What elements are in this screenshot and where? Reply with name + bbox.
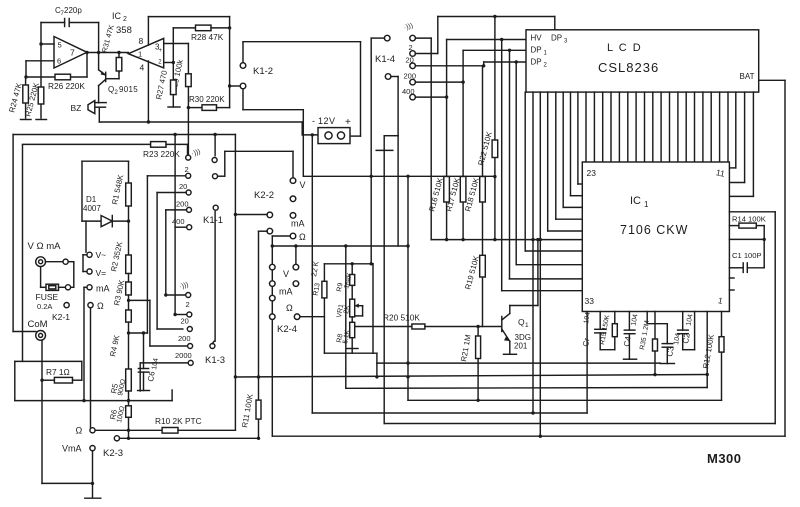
- svg-text:mA: mA: [291, 219, 305, 229]
- svg-text:6: 6: [57, 57, 61, 66]
- wire K2-2 wiper1: [235, 214, 267, 216]
- wire VmA terminal to ground: [92, 451, 94, 498]
- wire buzzer-range contact to IN bus: [415, 37, 431, 39]
- resistor R3 90K: [128, 274, 130, 283]
- resistor R6 100ohm: [126, 406, 132, 418]
- svg-text:IC: IC: [112, 11, 122, 21]
- wire bus y436 outermost: [272, 435, 785, 437]
- svg-text:7: 7: [70, 48, 75, 58]
- svg-text:2: 2: [123, 16, 127, 23]
- wire BAT to right border: [759, 79, 785, 81]
- switch K1-2: [240, 63, 246, 69]
- wire shunt rail y400: [15, 400, 172, 402]
- wire IC1 pin to R14 right node: [729, 238, 764, 240]
- wire K1-4 wiper2 to ground: [391, 76, 398, 78]
- resistor R21 1M: [477, 327, 479, 401]
- wire IC1 pin1 down: [706, 312, 708, 388]
- svg-text:V: V: [300, 180, 306, 190]
- svg-text:K2-3: K2-3: [103, 448, 123, 459]
- svg-text:FUSE: FUSE: [36, 292, 59, 302]
- svg-text:Ω: Ω: [299, 232, 306, 242]
- svg-text:R7 1Ω: R7 1Ω: [46, 367, 70, 377]
- wire R29 to K1-1 buzzer contact: [187, 108, 189, 155]
- svg-text:K1-4: K1-4: [375, 54, 395, 65]
- svg-text:Q: Q: [108, 85, 114, 94]
- svg-text:V~: V~: [96, 250, 107, 260]
- switch K1-1 right contacts: [212, 158, 217, 163]
- resistor R22 510K: [494, 17, 496, 240]
- svg-text:2: 2: [186, 300, 190, 309]
- wire K2-2 wiper2: [259, 230, 268, 232]
- wire negative rail under buzzer: [99, 121, 302, 123]
- op-amp U2A (IC2 pins 5,6,7): [54, 37, 87, 69]
- svg-text:CoM: CoM: [28, 319, 48, 330]
- svg-text:R10 2K PTC: R10 2K PTC: [155, 416, 202, 426]
- svg-text:220p: 220p: [64, 6, 82, 15]
- capacitor C6 104: [143, 333, 145, 369]
- wire IN bus to IC1: [431, 239, 582, 241]
- svg-text:1: 1: [525, 322, 529, 329]
- resistor R19 510K: [480, 255, 486, 277]
- wire K1-1 range rails: [147, 175, 185, 177]
- svg-text:8: 8: [139, 36, 144, 46]
- fuse 0.2A: [40, 267, 42, 288]
- svg-text:Ω: Ω: [76, 426, 83, 436]
- svg-text:+: +: [345, 117, 351, 128]
- wire LCD pin to IC1 left pin lowest: [524, 92, 526, 251]
- svg-text:400: 400: [172, 217, 185, 226]
- capacitor Cr 104: [599, 312, 601, 330]
- resistor R2 352K: [128, 221, 130, 255]
- wire K2-3 wiper rail: [120, 437, 258, 439]
- wire COM down: [41, 340, 43, 483]
- svg-text:mA: mA: [279, 287, 293, 297]
- capacitor C2 104: [682, 312, 684, 331]
- svg-text:Q: Q: [518, 317, 525, 327]
- svg-text:23: 23: [587, 168, 597, 178]
- svg-text:+: +: [159, 48, 163, 54]
- wire LCD left pins HV DP1 DP2: [501, 40, 503, 291]
- wire K1-2 lower contact: [242, 89, 244, 110]
- svg-text:9015: 9015: [119, 85, 138, 94]
- svg-text:BAT: BAT: [740, 72, 755, 81]
- wire top supply to R28 node: [148, 16, 229, 18]
- wire ground node down to K2-4 net: [397, 136, 399, 246]
- svg-text:DP: DP: [531, 46, 542, 55]
- svg-text:V Ω mA: V Ω mA: [28, 241, 62, 252]
- svg-text:mA: mA: [96, 284, 110, 294]
- resistor R28 47K: [173, 27, 195, 29]
- svg-text:4007: 4007: [83, 204, 101, 213]
- svg-text:K2-4: K2-4: [277, 324, 297, 335]
- divider box R13/R9/VR1/R8: [323, 264, 325, 353]
- svg-text:5: 5: [58, 41, 62, 50]
- transistor Q2 9015: [105, 72, 107, 81]
- switch K2-1 fixed contacts: [87, 252, 92, 257]
- wire ohm contact down to K2-3: [90, 308, 92, 428]
- wire K2-2 ohm contact down to outer bus: [272, 235, 290, 237]
- svg-text:R30 220K: R30 220K: [189, 95, 225, 104]
- resistor R12 100K: [721, 312, 723, 401]
- svg-text:Ω: Ω: [97, 301, 104, 311]
- svg-text:12V: 12V: [318, 116, 336, 126]
- wire K1-3 wiper: [212, 341, 214, 343]
- wire R28/R30 right node: [229, 17, 231, 108]
- resistor R15 150K: [614, 312, 616, 324]
- svg-text:VmA: VmA: [62, 444, 82, 454]
- ground symbol near battery: [384, 135, 398, 137]
- wire inner border: [22, 145, 24, 361]
- wire pin3 input to R29: [164, 43, 189, 45]
- svg-text:200: 200: [178, 334, 191, 343]
- capacitor C4 104: [628, 312, 630, 331]
- svg-text:33: 33: [585, 296, 595, 306]
- resistor R26 220K feedback: [26, 76, 87, 78]
- svg-text:2: 2: [185, 165, 189, 174]
- resistor R30 220K: [188, 107, 202, 109]
- wire K2-4 ohm contact: [300, 316, 325, 318]
- IC chip IC1 7106 CKW: [582, 162, 729, 312]
- wire mA contact down: [84, 286, 87, 288]
- svg-text:K2-2: K2-2: [254, 190, 274, 201]
- svg-text:DP: DP: [531, 58, 542, 67]
- op-amp U2B (IC2 pins 8,3,2,4,1): [128, 38, 163, 68]
- resistor R5 900ohm: [126, 369, 132, 391]
- resistor R24 47K: [25, 77, 27, 118]
- wire battery minus: [311, 135, 313, 413]
- svg-text:R14 100K: R14 100K: [732, 215, 766, 224]
- capacitor C7 220p: [41, 22, 65, 24]
- svg-text:V: V: [283, 269, 289, 279]
- svg-text:K1-2: K1-2: [253, 66, 273, 77]
- wire range select rail y176: [303, 175, 495, 177]
- wire LCD pin bus wrap-left lines: [577, 92, 579, 184]
- buzzer BZ: [88, 101, 95, 114]
- wire pin5 input: [40, 23, 42, 45]
- diode D1 4007: [82, 220, 101, 222]
- svg-text:1: 1: [644, 200, 649, 209]
- wire outer border: [13, 134, 235, 136]
- resistor R16 510K: [446, 97, 448, 240]
- resistor R35 1.2M: [654, 312, 656, 376]
- wire 2V contact to top line: [415, 53, 437, 55]
- wire terminal to K2-1: [46, 261, 63, 263]
- sub-box top wire: [82, 160, 129, 162]
- svg-text:20: 20: [179, 182, 187, 191]
- svg-text:DP: DP: [551, 34, 562, 43]
- wire chain tap to 2V rail and C6: [129, 332, 148, 334]
- switch K1-4 wipers: [384, 35, 390, 41]
- transistor Q1 3DG201: [501, 317, 503, 332]
- wire V/mA bus K1-1 wiper3 path: [272, 245, 408, 247]
- resistor R8 5.1K: [350, 322, 355, 337]
- wire 400V contact: [415, 96, 446, 98]
- resistor R25 220K: [40, 44, 42, 118]
- wire LCD pin wrap-right lines: [735, 92, 737, 168]
- resistor R18 510K: [482, 66, 484, 327]
- svg-text:-: -: [312, 116, 315, 126]
- ground symbol bottom-left: [85, 497, 101, 499]
- capacitor C3 104: [646, 312, 648, 324]
- resistor R9 168K: [351, 264, 353, 275]
- svg-text:K2-1: K2-1: [52, 312, 70, 322]
- svg-text:V=: V=: [96, 268, 107, 278]
- svg-text:Ω: Ω: [286, 303, 293, 313]
- wire pin2 node: [164, 62, 174, 64]
- resistor R27 470: [171, 80, 177, 95]
- svg-text:D1: D1: [86, 195, 97, 204]
- wire bus y400: [408, 399, 722, 401]
- wire K1-4 wiper left rail: [371, 37, 384, 39]
- wire bus y376: [235, 375, 707, 378]
- svg-text:4: 4: [140, 63, 145, 73]
- wire LCD top stub: [554, 17, 556, 30]
- svg-text:R26 220K: R26 220K: [48, 81, 85, 91]
- svg-text:R28 47K: R28 47K: [191, 32, 224, 42]
- svg-text:C1 100P: C1 100P: [732, 251, 762, 260]
- svg-text:IC: IC: [630, 195, 641, 207]
- wire K2-4 V contact up to bus: [295, 246, 297, 264]
- svg-text:2000: 2000: [175, 351, 192, 360]
- wire pin4 V-: [147, 61, 149, 122]
- wire 20V contact: [415, 65, 483, 67]
- switch K2-1 wiper3: [64, 303, 69, 308]
- svg-text:201: 201: [514, 342, 528, 351]
- wire bus y413: [312, 412, 587, 414]
- potentiometer VR1 2K: [350, 299, 355, 317]
- svg-text:CSL8236: CSL8236: [598, 60, 659, 75]
- resistor R13 22K: [322, 281, 327, 298]
- resistor R23 220K: [23, 143, 151, 145]
- wire IC1 pin to outer right rail: [729, 211, 775, 213]
- svg-text:20: 20: [406, 56, 414, 65]
- wire pin8 V+: [147, 17, 149, 46]
- svg-text:K1-3: K1-3: [205, 355, 225, 366]
- svg-text:0.2A: 0.2A: [37, 302, 52, 311]
- switch K2-2: [290, 178, 296, 184]
- wire K1-2 top to battery +: [242, 42, 244, 63]
- LCD CSL8236: [526, 30, 759, 92]
- wire 200V contact: [415, 81, 463, 83]
- svg-text:K1-1: K1-1: [203, 215, 223, 226]
- resistor R29 100k: [186, 74, 192, 87]
- resistor R20 510K: [352, 326, 412, 328]
- wire V~ V= tie to divider: [83, 254, 87, 256]
- svg-text:200: 200: [404, 72, 417, 81]
- resistor R1 548K: [128, 161, 130, 221]
- switch K2-4: [270, 264, 276, 270]
- svg-text:HV: HV: [531, 34, 543, 43]
- wire K1-3 200 contact to divider: [150, 345, 187, 347]
- wire pin6 input: [26, 60, 54, 62]
- svg-text:358: 358: [116, 25, 132, 36]
- resistor R11 100K: [258, 377, 260, 438]
- resistor R31 47K: [118, 53, 120, 73]
- wire bus y388: [346, 387, 707, 390]
- wire K1-3 2000 contact: [140, 362, 188, 364]
- svg-text:R20 510K: R20 510K: [383, 313, 420, 323]
- svg-text:200: 200: [176, 200, 189, 209]
- wire op-amp output node: [87, 52, 128, 54]
- svg-text:20: 20: [181, 317, 189, 326]
- svg-text:L C D: L C D: [607, 42, 642, 54]
- svg-text:7106 CKW: 7106 CKW: [620, 223, 688, 237]
- svg-text:1: 1: [138, 50, 142, 59]
- resistor R4 9K: [126, 310, 132, 322]
- wire V bus from K1-1 wiper: [292, 151, 294, 178]
- IC1 right edge pin ticks: [729, 277, 734, 279]
- wire bus y424: [384, 423, 775, 425]
- wire bus analog common y363: [377, 362, 660, 364]
- wire LCD to IC1 straight segment pins: [585, 92, 587, 162]
- svg-text:M300: M300: [707, 451, 742, 466]
- switch K1-1 left contacts: [187, 144, 189, 154]
- resistor R17 510K: [462, 82, 464, 240]
- svg-text:BZ: BZ: [71, 103, 82, 113]
- wire K1-1 wiper to K1-3 wiper: [214, 212, 216, 342]
- battery -12V+: [318, 128, 350, 144]
- svg-text:400: 400: [402, 87, 415, 96]
- svg-text:2: 2: [409, 43, 413, 52]
